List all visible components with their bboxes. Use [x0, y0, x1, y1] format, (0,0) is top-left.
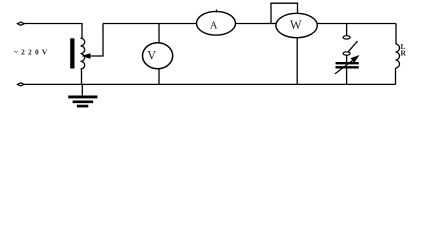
svg-text:~ 2 2 0 V: ~ 2 2 0 V: [14, 47, 48, 56]
svg-text:A: A: [210, 20, 218, 32]
svg-text:W: W: [290, 18, 302, 32]
svg-text:V: V: [147, 49, 156, 63]
svg-text:R: R: [401, 49, 407, 58]
